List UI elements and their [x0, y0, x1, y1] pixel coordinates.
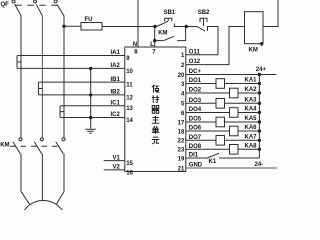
svg-text:IA1: IA1 — [110, 50, 120, 56]
node junction on phase C — [62, 25, 65, 28]
breaker QF pole 2 — [34, 0, 37, 3]
svg-text:IA2: IA2 — [110, 63, 120, 69]
contactor KM pole 3 — [62, 138, 65, 141]
wire IC1 — [64, 105, 125, 107]
svg-text:V1: V1 — [112, 155, 120, 161]
svg-text:SB2: SB2 — [198, 10, 210, 16]
svg-text:KA6: KA6 — [245, 125, 258, 131]
current transformer CT phase A — [17, 56, 21, 69]
node after SB1 — [185, 25, 188, 28]
svg-text:DO5: DO5 — [189, 117, 202, 123]
wire DC+ — [186, 74, 277, 76]
svg-text:KA7: KA7 — [245, 134, 258, 140]
svg-text:IC1: IC1 — [110, 101, 120, 107]
svg-text:KA2: KA2 — [245, 87, 258, 93]
svg-text:23: 23 — [178, 148, 185, 154]
node KM coil corner — [260, 42, 263, 45]
svg-text:DO3: DO3 — [189, 98, 202, 104]
node junction — [89, 67, 92, 70]
wire DO6 — [186, 130, 260, 132]
svg-text:24+: 24+ — [256, 67, 267, 73]
wire CT common to ground — [90, 68, 92, 128]
svg-text:KA4: KA4 — [245, 107, 258, 113]
svg-text:DI1: DI1 — [189, 153, 199, 159]
svg-text:DO8: DO8 — [189, 144, 202, 150]
wire O11 — [186, 54, 218, 56]
svg-text:14: 14 — [126, 118, 133, 124]
KM linkage dashed line — [10, 145, 58, 147]
wire DO5 — [186, 121, 260, 123]
svg-text:KM: KM — [249, 48, 258, 54]
ground symbol — [85, 129, 96, 133]
wire DO7 — [186, 139, 260, 141]
svg-text:DO7: DO7 — [189, 135, 202, 141]
node junction — [89, 93, 92, 96]
svg-text:FU: FU — [85, 17, 93, 23]
svg-text:O12: O12 — [189, 59, 201, 65]
wire DO1 — [186, 83, 260, 85]
svg-text:V2: V2 — [112, 165, 120, 171]
wire DO2 — [186, 92, 260, 94]
contactor KM pole 1 — [19, 138, 22, 141]
contactor coil KM — [245, 12, 264, 44]
svg-text:O11: O11 — [189, 49, 201, 55]
svg-text:10: 10 — [126, 69, 133, 75]
breaker QF pole 3 — [54, 0, 57, 3]
unit label text (Chinese: protection device main unit) — [152, 85, 159, 144]
wire phase A vertical — [20, 16, 22, 138]
wire IB1 — [42, 81, 124, 83]
motor M — [20, 201, 67, 240]
relay coil KA5 — [216, 117, 225, 127]
relay coil KA3 — [216, 99, 225, 109]
wire to fuse — [64, 25, 81, 27]
wire IA1 — [21, 55, 125, 57]
svg-text:IC2: IC2 — [110, 112, 120, 118]
svg-text:IB2: IB2 — [110, 90, 120, 96]
relay coil KA4 — [230, 108, 239, 118]
relay coil KA1 — [216, 79, 225, 89]
wire DO8 — [186, 148, 260, 150]
relay coil KA6 — [230, 126, 239, 136]
wire fuse to SB1 — [102, 26, 155, 28]
wire DO3 — [186, 102, 260, 104]
svg-text:GND: GND — [189, 163, 203, 169]
wire phase C vertical — [63, 16, 65, 138]
svg-text:QF: QF — [1, 2, 10, 8]
wire to motor centre — [41, 154, 43, 201]
svg-text:KA1: KA1 — [245, 78, 258, 84]
svg-text:20: 20 — [178, 73, 185, 79]
svg-text:N: N — [133, 42, 137, 48]
svg-text:18: 18 — [178, 129, 185, 135]
relay coil KA2 — [230, 88, 239, 98]
fuse FU — [81, 23, 102, 31]
wire N from top rail — [137, 0, 139, 47]
svg-text:KA3: KA3 — [245, 97, 258, 103]
relay coil KA7 — [216, 136, 225, 146]
node junction — [89, 116, 92, 119]
wire V1 — [104, 160, 125, 162]
QF linkage dashed line — [16, 4, 61, 6]
svg-text:DO6: DO6 — [189, 126, 202, 132]
svg-text:19: 19 — [178, 156, 185, 162]
svg-text:DO4: DO4 — [189, 107, 202, 113]
svg-text:KA8: KA8 — [245, 143, 258, 149]
wire GND — [186, 167, 277, 169]
svg-text:DC+: DC+ — [189, 69, 202, 75]
contactor KM pole 2 — [40, 138, 43, 141]
wire DO4 — [186, 112, 260, 114]
svg-text:SB1: SB1 — [164, 10, 176, 16]
svg-text:17: 17 — [178, 120, 185, 126]
breaker QF pole 1 — [12, 0, 15, 3]
wire IC2 — [64, 117, 125, 119]
svg-text:L: L — [150, 42, 154, 48]
wire O12 to KM coil — [186, 27, 245, 65]
wire KM coil to top right — [263, 0, 278, 27]
relay coil KA8 — [230, 145, 239, 155]
svg-text:21: 21 — [178, 166, 185, 172]
current transformer CT phase C — [60, 106, 64, 118]
wire V2 — [104, 169, 125, 171]
svg-text:12: 12 — [126, 95, 133, 101]
wire DI1 — [186, 157, 206, 159]
svg-text:16: 16 — [126, 170, 133, 176]
wire L stub — [154, 27, 156, 48]
protection relay main unit U1 — [125, 47, 186, 172]
node L junction — [153, 25, 156, 28]
svg-text:KA5: KA5 — [245, 116, 258, 122]
svg-text:11: 11 — [126, 83, 133, 89]
wire IB2 — [42, 94, 124, 96]
svg-text:KM: KM — [158, 31, 167, 37]
current transformer CT phase B — [38, 82, 42, 95]
wire to motor right — [57, 154, 65, 204]
svg-text:24-: 24- — [255, 162, 264, 168]
contact K1 — [206, 153, 219, 158]
svg-text:KM: KM — [0, 143, 9, 149]
svg-text:DO1: DO1 — [189, 78, 202, 84]
wire to motor left — [21, 154, 30, 205]
svg-text:13: 13 — [126, 106, 133, 112]
wire IA2 — [21, 67, 125, 69]
svg-text:IB1: IB1 — [110, 77, 120, 83]
svg-text:22: 22 — [178, 139, 185, 145]
wire phase B vertical — [41, 16, 43, 138]
svg-text:15: 15 — [126, 161, 133, 167]
svg-text:DO2: DO2 — [189, 88, 202, 94]
svg-text:K1: K1 — [209, 159, 217, 165]
wire 24V bus vertical — [258, 75, 260, 159]
